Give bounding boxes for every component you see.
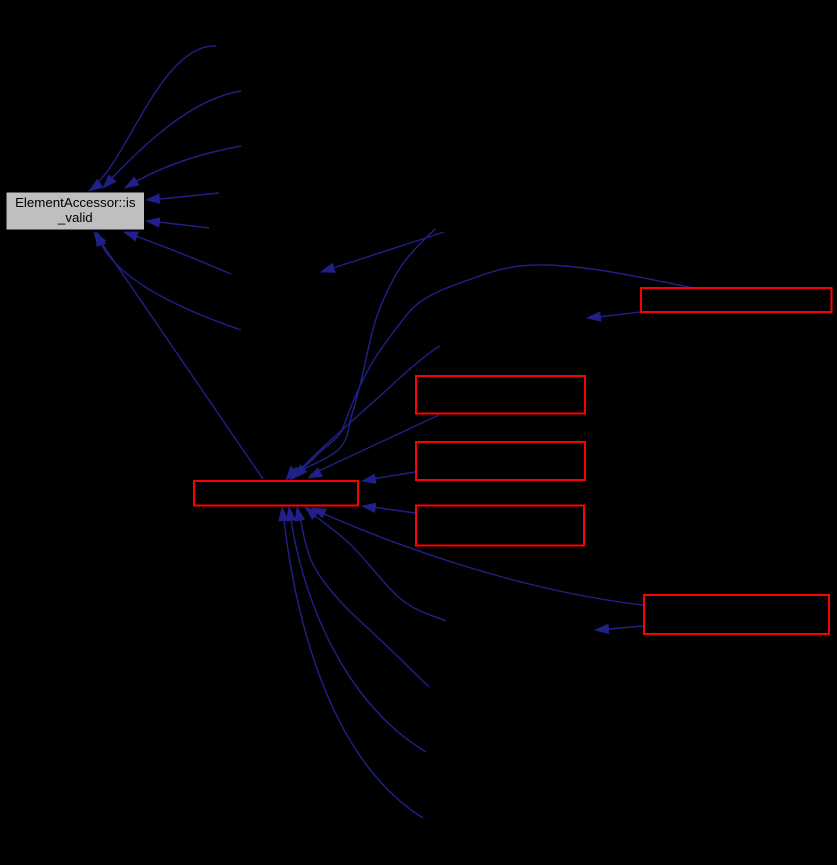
edge T3 into central node bottom bbox=[286, 507, 426, 752]
edge T2 into central node bottom bbox=[295, 507, 429, 687]
edge B6S short arrow from truncated node 6 bbox=[595, 624, 643, 633]
node truncated 3 (red, right) bbox=[416, 442, 585, 480]
edge T4 into central node bottom bbox=[279, 507, 423, 818]
edge G6 into ElementAccessor::is_valid bbox=[124, 232, 231, 274]
edge T1 into central node bottom bbox=[305, 507, 446, 621]
edge E3 from truncated node 3 to central node bbox=[362, 472, 415, 483]
edge G4 into ElementAccessor::is_valid bbox=[146, 193, 219, 203]
edge B1 into central node (bundle) bbox=[286, 229, 435, 480]
edge E4 from truncated node 4 to central node bbox=[362, 503, 415, 513]
edge G3 into ElementAccessor::is_valid bbox=[125, 146, 241, 188]
edge B6L from truncated node 6 to central node bbox=[312, 508, 643, 605]
node truncated 2 (red, right) bbox=[416, 376, 585, 414]
edge G7 into ElementAccessor::is_valid bbox=[97, 232, 241, 330]
edge E2 from truncated node 2 to central node bbox=[308, 415, 439, 478]
node truncated 6 (red, bottom right) bbox=[644, 595, 829, 634]
node truncated 1 (red, top right) bbox=[641, 288, 832, 312]
edge B2 long arc from truncated node 1 to central node bbox=[290, 265, 694, 480]
edge A9 short arrow upper middle bbox=[321, 232, 444, 272]
svg-text:_valid: _valid bbox=[57, 210, 93, 225]
node ElementAccessor::is_valid (current, grey) bbox=[6, 192, 145, 230]
edge G5 into ElementAccessor::is_valid bbox=[146, 218, 209, 228]
edge B1S short arrow from truncated node 1 bbox=[587, 312, 641, 321]
edge G8 from central node to ElementAccessor::is_valid bbox=[94, 232, 263, 479]
svg-text:ElementAccessor::is: ElementAccessor::is bbox=[15, 195, 136, 210]
node central (red, middle) bbox=[194, 481, 358, 506]
edge G2 into ElementAccessor::is_valid bbox=[103, 91, 241, 188]
node truncated 4 (red, right) bbox=[416, 506, 584, 546]
edge B3 into central node (bundle) bbox=[294, 346, 440, 478]
edge G1 into ElementAccessor::is_valid bbox=[89, 46, 216, 191]
